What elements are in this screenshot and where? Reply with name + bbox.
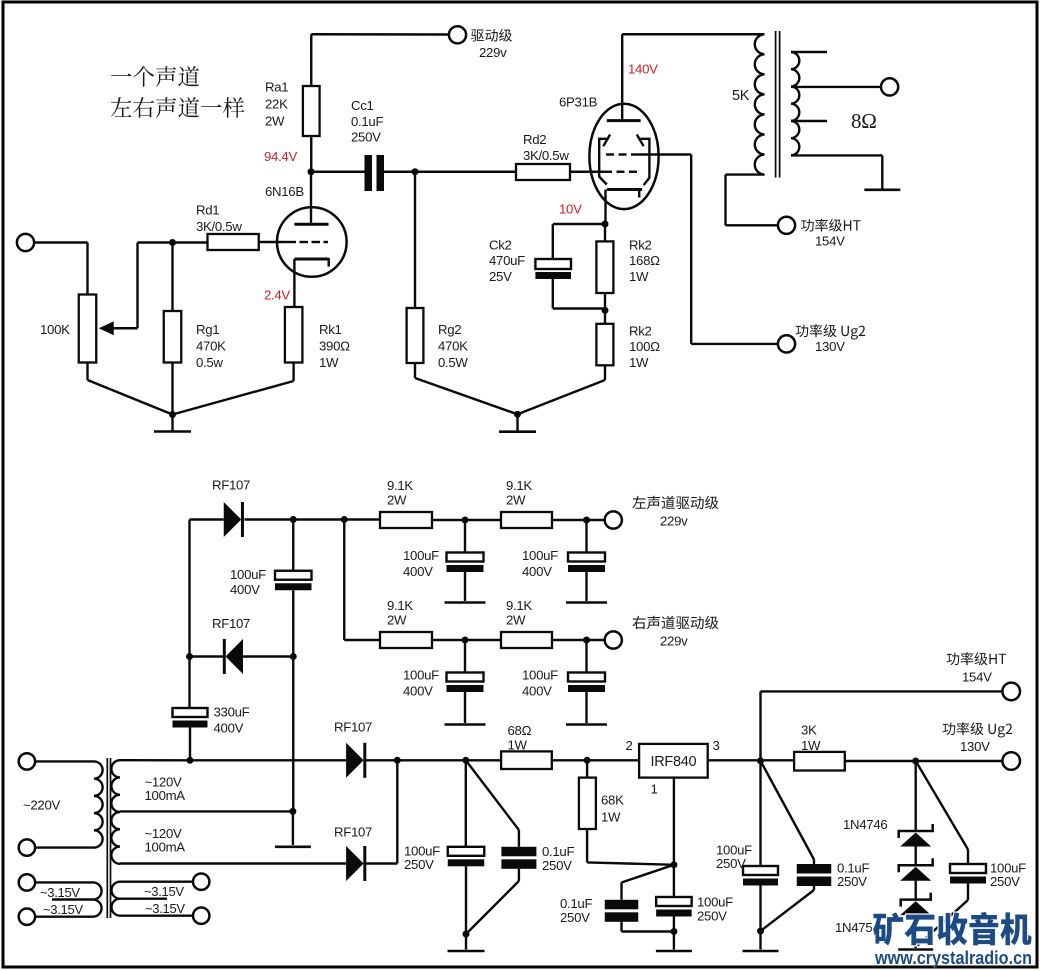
svg-text:130V: 130V	[960, 739, 990, 754]
svg-text:2W: 2W	[506, 613, 526, 628]
wire to drive terminal	[311, 33, 449, 36]
node between Rk2	[604, 293, 606, 310]
right channel feed wire	[343, 520, 345, 641]
secondary taps	[791, 51, 827, 53]
filament winding right	[193, 874, 209, 890]
primary wires	[35, 760, 94, 762]
svg-text:100mA: 100mA	[145, 788, 186, 803]
68K bottom wire to gate node	[586, 829, 588, 862]
OPT secondary	[791, 52, 799, 155]
wire 140V to OPT	[622, 33, 764, 35]
svg-text:3K: 3K	[801, 723, 817, 738]
svg-text:94.4V: 94.4V	[264, 149, 297, 164]
6P31B beam plates	[603, 135, 610, 147]
svg-text:5K: 5K	[732, 88, 750, 104]
svg-text:390Ω: 390Ω	[319, 339, 350, 354]
resistor Rd1 3K	[173, 241, 208, 243]
svg-text:100uF: 100uF	[522, 548, 558, 563]
OPT core	[775, 31, 777, 178]
svg-text:0.1uF: 0.1uF	[351, 114, 383, 129]
terminal 功率级 Ug2	[778, 335, 795, 352]
svg-text:400V: 400V	[522, 684, 552, 699]
svg-text:250V: 250V	[990, 874, 1020, 889]
rectifier D3 RF107	[346, 743, 364, 778]
wire to 68K node	[552, 759, 639, 761]
svg-text:250V: 250V	[351, 130, 381, 145]
svg-text:10V: 10V	[559, 202, 582, 217]
svg-text:2.4V: 2.4V	[264, 288, 290, 303]
primary coil 220V	[94, 761, 103, 847]
svg-text:250V: 250V	[837, 874, 867, 889]
rectifier D1 RF107 top	[190, 518, 224, 520]
terminal 功率级HT	[778, 217, 795, 234]
svg-text:Rg1: Rg1	[196, 322, 219, 337]
svg-text:130V: 130V	[815, 339, 845, 354]
ground gate	[670, 928, 677, 935]
wire to Rd2	[415, 171, 516, 173]
input terminal	[17, 234, 34, 251]
ground symbol amp1	[171, 415, 173, 432]
wire	[432, 639, 501, 641]
capacitor C1 100uF/400V	[292, 520, 294, 571]
svg-text:2W: 2W	[506, 493, 526, 508]
svg-text:9.1K: 9.1K	[387, 478, 413, 493]
rectifier D4 RF107	[346, 846, 364, 881]
transformer core	[106, 758, 108, 918]
svg-text:Rg2: Rg2	[438, 322, 461, 337]
terminal 8ohm	[881, 78, 898, 95]
ground node amp2	[514, 411, 521, 418]
terminal left drive	[605, 511, 622, 528]
svg-text:~3.15V: ~3.15V	[145, 901, 185, 916]
capacitor 100uF/250V after D3	[465, 760, 467, 847]
svg-text:3K/0.5w: 3K/0.5w	[523, 148, 569, 163]
svg-text:100uF: 100uF	[522, 668, 558, 683]
OPT primary 5K	[755, 34, 765, 174]
svg-text:1W: 1W	[629, 269, 649, 284]
svg-text:400V: 400V	[214, 721, 244, 736]
HT wire up and right	[759, 691, 761, 760]
CT ground	[292, 811, 294, 845]
svg-text:~220V: ~220V	[23, 798, 61, 813]
capacitor 0.1uF/250V gate	[622, 865, 674, 883]
pot bottom to ground	[86, 363, 88, 381]
svg-text:2W: 2W	[387, 493, 407, 508]
6P31B cathode	[607, 188, 642, 191]
svg-text:3: 3	[713, 738, 720, 753]
6P31B control grid dashes	[604, 171, 612, 173]
resistor 9.1K R2	[501, 632, 552, 648]
svg-text:2: 2	[626, 738, 633, 753]
svg-text:154V: 154V	[815, 234, 845, 249]
svg-text:IRF840: IRF840	[651, 754, 697, 770]
ground after D3	[463, 931, 470, 938]
svg-text:Rd2: Rd2	[523, 132, 546, 147]
ground HT caps	[757, 928, 764, 935]
svg-text:1W: 1W	[629, 355, 649, 370]
capacitor 0.1uF/250V at HT node	[761, 761, 815, 860]
node D2 right	[290, 653, 297, 660]
svg-text:250V: 250V	[560, 910, 590, 925]
wire IRF840 drain	[708, 759, 794, 761]
ground speaker	[864, 189, 900, 192]
node L2	[583, 517, 590, 524]
svg-text:470uF: 470uF	[489, 253, 525, 268]
6N16B anode	[310, 172, 312, 224]
svg-text:3K/0.5w: 3K/0.5w	[196, 219, 242, 234]
capacitor 100uF/250V at HT node	[759, 761, 761, 866]
capacitor 100uF/400V R2	[585, 640, 587, 673]
wire D1 to nodes	[245, 518, 381, 520]
ground symbol amp2	[516, 414, 518, 431]
svg-text:68K: 68K	[601, 793, 624, 808]
note text 一个声道 / 左右声道一样	[111, 66, 199, 87]
svg-text:RF107: RF107	[212, 478, 250, 493]
terminal 驱动级 229v	[449, 26, 466, 43]
node D2 left	[186, 653, 193, 660]
filament winding left	[19, 874, 35, 890]
6P31B anode	[621, 34, 623, 120]
svg-text:9.1K: 9.1K	[506, 598, 532, 613]
tube U1 6N16B	[277, 207, 347, 277]
svg-text:168Ω: 168Ω	[629, 253, 660, 268]
resistor Rk1 390	[285, 307, 303, 363]
terminal right drive	[605, 631, 622, 648]
svg-text:229v: 229v	[479, 45, 507, 60]
resistor 9.1K R1	[380, 632, 432, 648]
node cathode2	[602, 221, 609, 228]
svg-text:2W: 2W	[265, 114, 285, 129]
svg-text:0.5W: 0.5W	[438, 355, 468, 370]
left vertical rail	[188, 520, 190, 657]
node L1	[462, 517, 469, 524]
node grid1	[169, 239, 176, 246]
resistor 68ohm 1W	[501, 751, 552, 769]
svg-text:1W: 1W	[801, 738, 821, 753]
node R2	[583, 637, 590, 644]
svg-text:25V: 25V	[489, 269, 512, 284]
OPT primary bottom to HT	[726, 173, 765, 175]
tube U2 6P31B	[589, 104, 658, 209]
svg-text:22K: 22K	[265, 97, 288, 112]
node B+ main	[462, 757, 469, 764]
6P31B screen grid dashes	[606, 153, 614, 155]
svg-text:100uF: 100uF	[697, 895, 733, 910]
svg-text:0.1uF: 0.1uF	[560, 896, 592, 911]
svg-text:6P31B: 6P31B	[559, 95, 598, 110]
svg-text:1W: 1W	[601, 810, 621, 825]
svg-text:330uF: 330uF	[214, 705, 250, 720]
capacitor 330uF/400V	[173, 708, 208, 717]
svg-text:1N475: 1N475	[835, 920, 872, 935]
mosfet U3 IRF840	[639, 744, 708, 778]
resistor Rg2 470K	[414, 172, 416, 308]
node grid2	[412, 168, 419, 175]
resistor Rk2 168	[604, 224, 606, 241]
svg-text:250V: 250V	[542, 858, 572, 873]
wire	[552, 519, 605, 521]
svg-text:1W: 1W	[508, 737, 528, 752]
power transformer primary terminals	[19, 753, 35, 769]
resistor 9.1K L1	[380, 512, 432, 528]
svg-text:100Ω: 100Ω	[629, 339, 660, 354]
svg-text:250V: 250V	[716, 856, 746, 871]
ground node amp1	[169, 411, 176, 418]
wire wiper to grid node	[138, 241, 173, 243]
wire Rd2 to grid	[570, 171, 604, 173]
capacitor 100uF/250V at Ug2	[916, 761, 968, 850]
svg-text:470K: 470K	[196, 339, 226, 354]
svg-text:400V: 400V	[522, 564, 552, 579]
svg-text:1: 1	[651, 782, 658, 797]
svg-text:Rk2: Rk2	[629, 324, 652, 339]
svg-text:Rk2: Rk2	[629, 238, 652, 253]
svg-text:100uF: 100uF	[403, 548, 439, 563]
svg-text:RF107: RF107	[334, 720, 372, 735]
svg-text:100mA: 100mA	[145, 840, 186, 855]
capacitor 100uF/400V L2	[585, 520, 587, 553]
svg-text:1W: 1W	[319, 355, 339, 370]
svg-text:250V: 250V	[697, 909, 727, 924]
mid vertical C1 to CT	[292, 657, 294, 812]
svg-text:68Ω: 68Ω	[508, 723, 532, 738]
rectifier D2 RF107 reversed	[190, 655, 225, 657]
resistor Ra1 22K	[310, 34, 312, 86]
6N16B grid dashes	[282, 241, 296, 243]
resistor 3K 1W	[794, 752, 845, 771]
capacitor 0.1uF/250V after D3	[466, 760, 519, 830]
svg-text:8Ω: 8Ω	[851, 109, 877, 133]
node anode1	[308, 168, 315, 175]
svg-text:Rk1: Rk1	[319, 322, 342, 337]
node D3	[394, 757, 401, 764]
wire node to Cc1	[311, 171, 365, 173]
screen wire to Ug2	[639, 153, 691, 155]
resistor Rg1 470K	[171, 243, 173, 312]
svg-text:~3.15V: ~3.15V	[144, 884, 184, 899]
zener chain 1N4746	[915, 761, 917, 831]
svg-text:100K: 100K	[40, 322, 70, 337]
svg-text:100uF: 100uF	[230, 567, 266, 582]
svg-text:154V: 154V	[962, 670, 992, 685]
wire Cc1 to node	[384, 171, 415, 173]
svg-text:RF107: RF107	[212, 616, 250, 631]
resistor Rk2 100	[596, 324, 613, 366]
wire	[552, 639, 605, 641]
capacitor 100uF/400V R1	[464, 640, 466, 673]
svg-text:Ra1: Ra1	[265, 80, 288, 95]
svg-text:400V: 400V	[403, 684, 433, 699]
wire input to pot	[34, 241, 87, 243]
node 330uF bottom	[187, 757, 194, 764]
svg-text:229v: 229v	[660, 514, 688, 529]
potentiometer 100K	[79, 295, 97, 363]
wire 3K to Ug2	[845, 760, 1003, 762]
terminal power Ug2	[1002, 752, 1020, 770]
svg-text:Cc1: Cc1	[351, 98, 374, 113]
svg-text:470K: 470K	[438, 339, 468, 354]
wire D3 out	[365, 759, 501, 761]
capacitor Cc1 0.1uF	[365, 155, 373, 191]
node CT	[289, 808, 296, 815]
wire	[432, 519, 501, 521]
capacitor Ck2 470uF	[553, 223, 605, 225]
svg-text:RF107: RF107	[334, 825, 372, 840]
svg-text:~3.15V: ~3.15V	[40, 885, 80, 900]
node HT	[757, 757, 764, 764]
resistor 68K 1W	[586, 760, 588, 777]
svg-text:400V: 400V	[230, 582, 260, 597]
rail to D3	[190, 759, 346, 761]
svg-text:2W: 2W	[387, 613, 407, 628]
pot wiper arrow	[99, 321, 114, 335]
svg-text:1N4746: 1N4746	[843, 817, 887, 832]
svg-text:9.1K: 9.1K	[506, 478, 532, 493]
svg-text:www.crystalradio.cn: www.crystalradio.cn	[874, 948, 1032, 968]
svg-text:9.1K: 9.1K	[387, 598, 413, 613]
svg-text:~3.15V: ~3.15V	[43, 902, 83, 917]
svg-text:Ck2: Ck2	[489, 238, 512, 253]
IRF840 pin1 lead	[673, 778, 675, 865]
svg-text:400V: 400V	[403, 564, 433, 579]
secondary HV coil	[111, 760, 120, 864]
svg-text:Rd1: Rd1	[196, 203, 219, 218]
node 68K top	[584, 757, 591, 764]
svg-text:100uF: 100uF	[403, 668, 439, 683]
svg-text:0.5w: 0.5w	[196, 355, 223, 370]
svg-text:250V: 250V	[404, 857, 434, 872]
6N16B cathode	[294, 258, 328, 261]
svg-text:0.1uF: 0.1uF	[542, 844, 574, 859]
secondary bottom wire	[120, 862, 346, 864]
svg-text:229v: 229v	[660, 634, 688, 649]
svg-text:6N16B: 6N16B	[265, 184, 304, 199]
watermark 矿石收音机	[873, 912, 1031, 945]
svg-text:140V: 140V	[628, 62, 658, 77]
node gate	[670, 861, 677, 868]
capacitor 100uF/400V L1	[464, 520, 466, 553]
capacitor 100uF/250V gate	[673, 865, 675, 897]
terminal power HT	[1002, 683, 1020, 701]
node R1	[462, 637, 469, 644]
secondary top wire	[120, 759, 190, 761]
resistor Rd2 3K	[516, 164, 570, 180]
node feed right	[341, 516, 348, 523]
node zener top	[912, 758, 919, 765]
center tap wire	[120, 810, 293, 812]
resistor 9.1K L2	[501, 512, 552, 528]
node C1 top	[290, 516, 297, 523]
